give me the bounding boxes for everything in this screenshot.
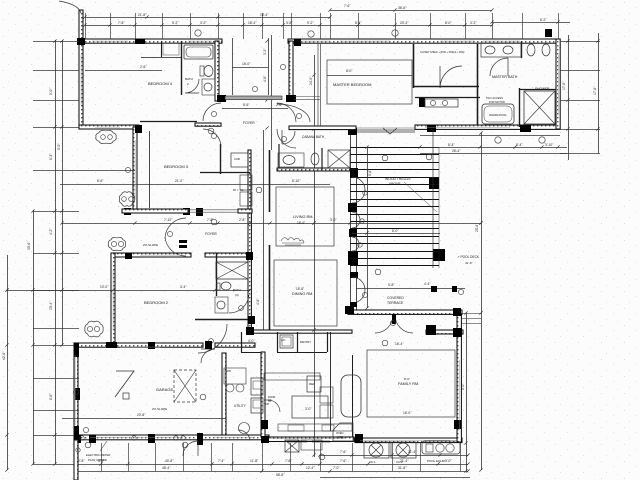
wire terrace colonnade east line: [356, 131, 358, 310]
wire terrace step 3: [462, 323, 481, 325]
post terrace jog post E: [453, 328, 462, 337]
post colonnade post 5: [350, 272, 358, 278]
closet rod bedroom4: [163, 43, 179, 55]
dim text 8'-0in: [461, 383, 465, 390]
svg-text:10'-4": 10'-4": [49, 301, 53, 310]
wire master hall south wall: [415, 97, 480, 99]
refrigerator: [307, 376, 321, 392]
wall garage west wall: [74, 343, 78, 439]
bubble bubble 5: [539, 137, 545, 143]
svg-text:TERRACE: TERRACE: [387, 301, 404, 305]
post terrace jog post W: [426, 325, 436, 335]
svg-text:PANTRY: PANTRY: [300, 340, 311, 344]
label room foyer upper: [243, 121, 255, 125]
toilet cabana: [311, 153, 319, 165]
post master south post 2: [520, 125, 531, 132]
wall master wing south wall: [415, 125, 560, 129]
label door up 1: [268, 396, 275, 399]
dimension line long vertical dim: [314, 55, 316, 457]
svg-text:5'-2": 5'-2": [172, 21, 179, 25]
label room cabana: [302, 135, 325, 139]
door arc bedroom2 door: [198, 324, 227, 353]
bubble bubble 10: [426, 154, 432, 160]
bubble bubble 14: [319, 454, 325, 460]
shower cabana: [328, 150, 350, 168]
svg-text:2'-8": 2'-8": [78, 459, 85, 463]
label room garage: [156, 387, 173, 392]
vanity master bath: [481, 43, 521, 57]
svg-text:BATH: BATH: [233, 288, 241, 292]
svg-text:31'-8": 31'-8": [398, 466, 407, 470]
svg-text:8'-6": 8'-6": [243, 103, 250, 107]
dimension line hall dim vertical: [263, 130, 265, 330]
dim text 9'-2in: [307, 21, 314, 25]
svg-text:3'-2": 3'-2": [470, 21, 477, 25]
wire bedroom4 closet front: [141, 57, 181, 59]
wall utility west wall: [222, 353, 226, 435]
svg-text:COVERED: COVERED: [387, 296, 404, 300]
label oven label: [336, 431, 343, 435]
washer dryer utility: [224, 368, 246, 392]
svg-text:2'-8": 2'-8": [239, 218, 246, 222]
svg-text:3'-4": 3'-4": [180, 285, 187, 289]
wall terrace south wall: [348, 310, 462, 314]
dim text 8'-6in: [243, 103, 250, 107]
label slope label 1: [143, 243, 158, 247]
svg-text:2'-6": 2'-6": [276, 103, 283, 107]
dimension line top dim A: [85, 17, 330, 19]
dim text 7'-6in: [340, 459, 347, 463]
bubble garage wall circle 2: [132, 436, 136, 440]
door arc foyer door RB: [277, 129, 296, 148]
svg-text:21'-8": 21'-8": [138, 13, 147, 17]
whirlpool tub: [482, 104, 514, 124]
dimension line bottom dim D: [320, 477, 470, 479]
label room bedroom2: [144, 300, 169, 305]
sink cabana: [278, 153, 304, 167]
shower bath3: [216, 262, 248, 279]
svg-text:40'-8": 40'-8": [165, 459, 174, 463]
condenser unit 2: [391, 442, 416, 458]
svg-text:4'-6": 4'-6": [256, 298, 260, 305]
label room bath2 num: [187, 82, 189, 86]
bubble bubble 16: [85, 442, 91, 448]
wire ac closet west: [277, 332, 279, 352]
bubble colonnade bubble 1: [363, 191, 367, 195]
post master hall post: [419, 98, 425, 107]
label pool deck label: [457, 255, 480, 259]
dim text 11'-8in: [250, 459, 259, 463]
post bedroom3 south post: [196, 208, 203, 216]
bubble family door bubble: [390, 320, 395, 325]
wall wic east wall: [248, 150, 251, 212]
bubble bubble 9: [382, 155, 388, 161]
bubble bubble 1: [195, 30, 201, 36]
svg-text:WOOD TRELLIS: WOOD TRELLIS: [385, 177, 411, 181]
dim text 12'-4in: [306, 466, 315, 470]
wire pantry east: [327, 332, 329, 352]
wire living west wall lower: [269, 245, 271, 330]
bubble bath3 door bubble: [239, 306, 244, 311]
svg-text:17'-8": 17'-8": [593, 86, 597, 95]
post garage S post 2: [148, 434, 155, 443]
svg-text:3'-0": 3'-0": [330, 218, 337, 222]
wall bedroom3 south wall west: [122, 209, 188, 213]
svg-text:18'-4": 18'-4": [248, 21, 257, 25]
cab box: [231, 153, 248, 167]
bubble colonnade bubble 2: [360, 219, 364, 223]
svg-text:SHOWER: SHOWER: [535, 87, 550, 91]
dimension line mid dim bedroom2 line: [7, 290, 250, 292]
svg-text:CU-1: CU-1: [369, 460, 376, 464]
dim text 3'-0in: [305, 407, 312, 411]
svg-text:8'-0": 8'-0": [404, 377, 410, 381]
svg-text:A/C: A/C: [281, 338, 285, 342]
svg-text:W/D: W/D: [226, 369, 231, 373]
dim text 7'-10in: [164, 218, 173, 222]
svg-text:36'-6": 36'-6": [398, 6, 407, 10]
label plan copied note: [88, 458, 107, 462]
door arc living door pair1 bottom: [352, 190, 365, 203]
dim text 31'-8in: [398, 466, 407, 470]
svg-text:8'-0": 8'-0": [445, 21, 452, 25]
wall bedroom4 west wall: [79, 10, 83, 129]
label room bath2: [185, 77, 193, 81]
wall bedroom3 west wall: [133, 127, 137, 211]
door arc dining door bottom leaf: [352, 290, 365, 303]
wall entry east wall: [289, 41, 293, 101]
svg-text:8'-6": 8'-6": [49, 393, 53, 400]
wall garage north wall east: [215, 343, 255, 347]
label cooktop label 2: [264, 402, 270, 406]
label family dim8: [404, 377, 410, 381]
dim text 4'-6in: [256, 298, 260, 305]
dim text 21'-4in: [400, 459, 409, 463]
svg-text:9'-0": 9'-0": [57, 143, 61, 150]
post bed4 SE: [135, 125, 142, 133]
dim text 4'-4in: [424, 282, 431, 286]
wall foyer west stub wall: [195, 123, 221, 126]
extension lines right: [560, 42, 600, 154]
wire hall closet south: [241, 352, 261, 354]
sink bath3: [215, 297, 228, 313]
svg-text:8'-6": 8'-6": [97, 179, 104, 183]
trellis leader: [404, 182, 437, 212]
bubble cloud2 num a: [122, 197, 127, 202]
dim text 16'-0in: [242, 62, 251, 66]
svg-text:8'-0": 8'-0": [392, 229, 399, 233]
label dining dim: [296, 287, 304, 291]
dim text 16'-0in: [403, 411, 412, 415]
slider master bedroom terrace doors: [356, 128, 415, 132]
revision cloud 4: [85, 321, 103, 337]
svg-text:2'-6": 2'-6": [140, 65, 147, 69]
dim text 25'-8in: [475, 223, 479, 232]
dim text 24'-0in: [309, 76, 313, 85]
door arc living door pair3 bottom: [352, 244, 359, 251]
opening header bedroom3: [188, 210, 238, 212]
svg-text:+ MIC: + MIC: [336, 435, 343, 439]
wire bath3 west partition: [216, 253, 218, 296]
linen closet shelves: [240, 175, 252, 206]
post bed3 SE: [183, 208, 190, 215]
door arc foyer door LB: [203, 129, 221, 147]
label cu1 label: [369, 460, 376, 464]
bubble bubble 6: [87, 326, 92, 331]
svg-text:CLOSET SHELF + ROD + SHELF + R: CLOSET SHELF + ROD + SHELF + ROD: [420, 51, 465, 54]
dim text 18'-4in: [248, 21, 257, 25]
dim text 4'-0in: [248, 339, 255, 343]
svg-text:9'-8": 9'-8": [368, 169, 372, 176]
svg-text:CABANA BATH: CABANA BATH: [302, 135, 325, 139]
label cab label: [234, 157, 240, 161]
post trellis post E1: [429, 178, 439, 189]
dimension line bedroom3 closet dim: [79, 170, 135, 172]
label room family: [398, 382, 419, 386]
svg-text:8'-10": 8'-10": [292, 179, 301, 183]
label door up 2: [268, 400, 272, 403]
kitchen window sill bars: [287, 441, 330, 443]
wire electric meter leader: [100, 441, 107, 451]
svg-text:21'-4": 21'-4": [408, 450, 417, 454]
bubble bedroom2 door bubble: [209, 339, 214, 344]
wire bath2 west partition: [181, 41, 183, 95]
post dining door post: [350, 302, 357, 307]
svg-text:7'-6": 7'-6": [340, 450, 347, 454]
dim text 7'-6in: [344, 4, 351, 8]
post master south post 1: [427, 125, 436, 132]
bubble bubble 18: [211, 219, 217, 225]
dim text 5'-2in: [172, 21, 179, 25]
bubble cloud2 num b: [129, 197, 134, 202]
wall ovens: [251, 378, 263, 413]
corner oven cabinet: [333, 423, 353, 441]
dim text 8'-4in: [355, 21, 362, 25]
dim text 16'-4in: [395, 342, 404, 346]
toilet master: [527, 44, 550, 56]
dim text 8'-4in: [49, 153, 53, 160]
bubble colonnade bubble 3: [358, 243, 362, 247]
bubble foyer lower bubble: [167, 231, 172, 236]
label room master bath: [492, 75, 518, 79]
svg-text:3'-3": 3'-3": [263, 48, 267, 55]
label living dim: [297, 221, 305, 225]
svg-text:9'-0": 9'-0": [49, 88, 53, 95]
svg-text:30'-6": 30'-6": [27, 241, 31, 250]
nook banquette table: [341, 375, 361, 417]
svg-text:2% SLOPE: 2% SLOPE: [143, 243, 158, 247]
bubble cloud1 num a: [101, 135, 106, 140]
svg-text:ELECTRIC METER: ELECTRIC METER: [86, 453, 110, 457]
dim text 3'-3in: [263, 48, 267, 55]
dimension line master bed dim line: [327, 75, 412, 77]
svg-text:(3): (3): [235, 293, 239, 297]
svg-text:FOR MOTOR: FOR MOTOR: [489, 100, 505, 104]
wall north wall east: [288, 39, 558, 43]
tray ceiling master bedroom: [327, 60, 412, 104]
dimension line courtyard dim width: [232, 67, 268, 69]
svg-text:FAMILY RM.: FAMILY RM.: [398, 382, 419, 386]
door leaf kitchen: [268, 400, 280, 412]
svg-text:GARAGE: GARAGE: [156, 387, 173, 392]
toilet bath2: [200, 66, 213, 77]
svg-text:3'-0": 3'-0": [445, 459, 452, 463]
post family SW post: [355, 434, 363, 443]
post bed2 north post: [125, 253, 132, 259]
svg-text:7'-6": 7'-6": [340, 459, 347, 463]
bubble bubble 12: [256, 187, 262, 193]
dimension line family east dim: [466, 313, 468, 471]
post entry NE: [294, 39, 301, 46]
door arc foyer lower door bottom leaf: [165, 237, 186, 256]
window marks: [90, 41, 520, 440]
wire master closet south wall: [413, 86, 479, 88]
door arc foyer RT outer: [277, 104, 310, 122]
dimension line master bath dim line 1: [420, 135, 560, 137]
post bed2 NE: [246, 252, 253, 260]
dimension line courtyard dim west: [232, 38, 234, 95]
svg-text:7'-8": 7'-8": [118, 21, 125, 25]
bubble garage wall circle 1: [80, 436, 84, 440]
label room dining: [292, 292, 313, 296]
svg-text:9'-2": 9'-2": [307, 21, 314, 25]
dim text 8'-4in: [516, 143, 523, 147]
svg-text:WHIRLPOOL: WHIRLPOOL: [489, 113, 507, 117]
wall bath2 east wall: [215, 41, 219, 101]
cabana west partition: [278, 144, 280, 168]
dimension line mid dim bedroom3 line: [60, 184, 330, 186]
post foyer lower leaf bar 2: [179, 245, 187, 248]
label room bath3 num: [235, 293, 239, 297]
dim text 10'-4in: [49, 301, 53, 310]
post colonnade post 1: [350, 168, 358, 177]
wall bedroom3 south wall east: [238, 209, 252, 213]
door arc family door left leaf: [375, 315, 393, 333]
dim text 21'-0in: [175, 179, 184, 183]
wire master closet west wall: [413, 44, 415, 88]
post terrace dim post 1: [431, 286, 437, 292]
post foyer lower leaf bar 1: [179, 240, 187, 243]
master bedroom west window wall: [318, 44, 321, 126]
svg-text:OVEN: OVEN: [336, 431, 343, 435]
wire nook west line: [330, 332, 332, 431]
post garage SW tall post: [74, 426, 79, 440]
label room bedroom3: [164, 164, 189, 169]
dim text 9'-8in: [368, 169, 372, 176]
label pool deck dim: [465, 261, 473, 265]
dimension line top dim B: [330, 10, 492, 12]
dim text 7'-8in: [285, 459, 292, 463]
wire ac closet east: [297, 332, 299, 352]
door arc bath3 door: [229, 295, 249, 313]
wire hall closet west: [241, 332, 243, 352]
door arc bedroom2 garage door: [201, 349, 215, 363]
slider center mark: [383, 128, 397, 134]
bubble terrace bubble W: [362, 292, 367, 297]
svg-text:18'-4": 18'-4": [260, 13, 269, 17]
dimension line terrace dim vertical: [367, 147, 369, 308]
door arc living door pair2 top: [352, 212, 360, 220]
nook west cabinets: [320, 387, 333, 418]
kitchen island: [292, 396, 328, 418]
wall bedroom2 west wall: [111, 253, 115, 343]
dimension line entry dim line: [222, 108, 288, 110]
dimension line left dim D: [62, 40, 64, 345]
revision cloud 1: [96, 130, 116, 143]
svg-text:58'-8": 58'-8": [276, 473, 285, 477]
wall bedroom4 south wall: [79, 125, 139, 129]
bubble terrace bubble E: [458, 289, 463, 294]
dimension line entry dim vertical: [271, 35, 273, 150]
svg-text:3'-2": 3'-2": [200, 21, 207, 25]
svg-text:42'-8": 42'-8": [2, 351, 6, 360]
svg-text:FOYER: FOYER: [243, 121, 255, 125]
door arc cabana door: [282, 130, 295, 144]
dim text 3'-2in: [470, 21, 477, 25]
svg-text:UP: UP: [268, 400, 272, 403]
svg-text:41'-6": 41'-6": [465, 261, 473, 265]
bubble foyer bubble 1: [211, 111, 216, 116]
bubble post leader bubble: [83, 427, 88, 432]
tray ceiling dining room: [274, 260, 337, 326]
wall garage north wall west: [74, 343, 203, 347]
door arc living door pair1 top: [352, 177, 365, 190]
svg-text:8'-2": 8'-2": [540, 18, 547, 22]
wire terrace colonnade west line: [350, 131, 352, 310]
door arc dining door top leaf: [352, 277, 365, 290]
dim text 8'-0in: [346, 69, 353, 73]
garage vent circles: [174, 436, 185, 440]
dim text 2'-6in: [276, 103, 283, 107]
post garage north post: [148, 342, 155, 349]
revision cloud 2: [119, 192, 134, 206]
door arc foyer lower door top leaf: [165, 218, 186, 239]
dim text 3'-4in: [180, 285, 187, 289]
wall north wall west: [81, 39, 222, 43]
dim text 8'-0in: [392, 229, 399, 233]
dim text 3'-8in: [286, 21, 293, 25]
label room utility: [234, 404, 247, 408]
door arc bath2 door: [185, 79, 199, 93]
label wd label: [226, 369, 231, 373]
post NW corner: [77, 38, 85, 45]
wall kitchen south wall: [265, 437, 354, 442]
wire terrace step 1: [462, 313, 481, 315]
post cabana NE: [348, 128, 357, 135]
dim text 17'-8in: [562, 81, 566, 90]
dim text 2'-8in: [78, 459, 85, 463]
svg-text:16'-0": 16'-0": [403, 411, 412, 415]
label ref label: [309, 382, 315, 386]
kitchen counter north: [264, 373, 320, 380]
bubble foyer bubble 3: [296, 113, 301, 118]
door arc master closet door: [440, 66, 462, 88]
svg-text:BEDROOM 2: BEDROOM 2: [144, 300, 169, 305]
svg-text:24'-0": 24'-0": [309, 76, 313, 85]
label trellis label 2: [389, 182, 401, 186]
bubble cloud1 num b: [108, 135, 113, 140]
bubble bubble 6b: [94, 326, 99, 331]
label terrace label 2: [387, 301, 404, 305]
post bath2 SE: [217, 95, 226, 102]
toilet bath3: [217, 282, 231, 290]
dimension line left dim A: [7, 255, 9, 470]
post bed2 SW post: [106, 342, 117, 348]
door arc foyer door RT: [277, 103, 296, 122]
dim text 5'-4in: [98, 459, 105, 463]
sink bath2: [202, 79, 215, 95]
dim text 42'-8in: [2, 351, 6, 360]
